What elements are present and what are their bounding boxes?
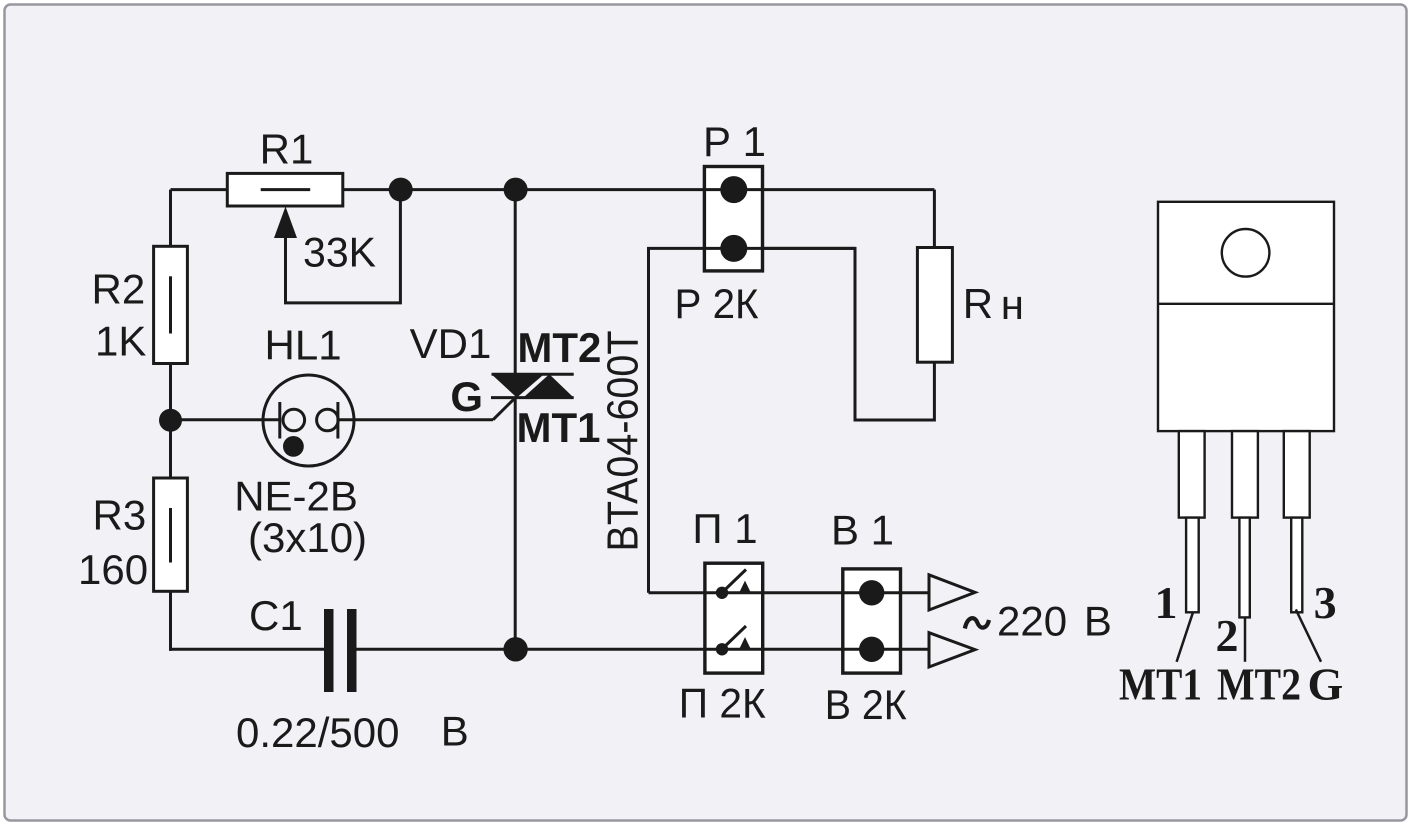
svg-text:1K: 1K <box>95 317 146 364</box>
wire P1 lower left <box>649 248 705 592</box>
svg-text:C1: C1 <box>249 592 303 639</box>
HL1 gas dot <box>283 436 304 457</box>
svg-text:R3: R3 <box>93 492 147 539</box>
svg-text:Р 2К: Р 2К <box>675 280 760 327</box>
svg-text:0.22/500: 0.22/500 <box>236 709 400 756</box>
svg-text:В: В <box>1084 598 1112 645</box>
connector P1 <box>704 167 762 271</box>
svg-text:MT1: MT1 <box>1119 659 1202 710</box>
svg-text:NE-2B: NE-2B <box>234 473 358 520</box>
svg-text:В: В <box>441 707 469 754</box>
wire HL1 rail <box>171 418 280 421</box>
wire R3 to bottom rail <box>169 591 172 651</box>
connector B1 <box>843 569 901 673</box>
wire B1 upper out <box>901 591 930 594</box>
load resistor Rn <box>917 248 952 363</box>
label ~ <box>965 618 989 628</box>
svg-text:G: G <box>1308 659 1344 710</box>
svg-text:MT2: MT2 <box>517 324 601 371</box>
svg-text:VD1: VD1 <box>410 320 492 367</box>
wire bottom rail to C1 <box>169 648 324 651</box>
svg-text:В 2К: В 2К <box>825 681 907 728</box>
TO-220 legs <box>1179 431 1310 617</box>
svg-text:1: 1 <box>1155 577 1178 628</box>
wire gate diagonal <box>493 399 514 420</box>
wire top rail R1 to P1 <box>343 188 763 191</box>
triac VD1 <box>491 374 574 397</box>
node junction dot D (triac/bottom rail) <box>503 637 527 661</box>
svg-text:MT1: MT1 <box>517 404 601 451</box>
svg-text:В 1: В 1 <box>831 507 894 554</box>
TO-220 callout lines <box>1177 609 1321 661</box>
wire triac vertical bottom <box>514 398 517 650</box>
svg-text:2: 2 <box>1216 610 1239 661</box>
neon lamp HL1 <box>263 375 354 466</box>
node junction dot C (R2/R3/HL1) <box>159 409 182 432</box>
svg-text:33K: 33K <box>303 229 376 276</box>
wiper arrow of R1 <box>274 207 297 239</box>
wire triac anode vertical top <box>514 190 517 375</box>
wire R2 to R3 <box>169 364 172 479</box>
arrow terminal upper <box>929 575 975 610</box>
resistor R2 <box>154 246 188 363</box>
wire HL1 to gate <box>338 418 493 421</box>
svg-text:HL1: HL1 <box>265 322 342 369</box>
wire wiper stem <box>286 190 401 303</box>
svg-text:BTA04-600T: BTA04-600T <box>599 331 648 552</box>
svg-text:R: R <box>963 280 993 327</box>
switch P1 (П1) <box>705 563 763 673</box>
svg-text:Р 1: Р 1 <box>703 118 766 165</box>
svg-text:R1: R1 <box>260 126 314 173</box>
svg-text:220: 220 <box>997 598 1067 645</box>
wire left vertical R1 to R2 <box>169 190 172 247</box>
svg-text:3: 3 <box>1314 577 1337 628</box>
wire top rail <box>171 188 228 191</box>
capacitor C1 <box>324 609 357 692</box>
svg-text:П 1: П 1 <box>692 505 757 552</box>
svg-text:MT2: MT2 <box>1217 659 1301 710</box>
TO-220 package body <box>1158 202 1334 431</box>
node junction dot B (triac/top rail) <box>504 178 528 202</box>
svg-text:160: 160 <box>78 546 148 593</box>
wire P1 lower crossing <box>704 247 855 250</box>
resistor R1 potentiometer <box>227 173 342 206</box>
wire bottom rail C1 to P1sw <box>357 648 843 651</box>
svg-text:н: н <box>1001 281 1024 328</box>
wire Rn loop <box>763 248 935 420</box>
node junction dot A (wiper/top rail) <box>389 178 413 202</box>
arrow terminal lower <box>929 633 975 667</box>
svg-text:(3x10): (3x10) <box>248 514 367 561</box>
svg-text:R2: R2 <box>92 266 146 313</box>
svg-text:П 2К: П 2К <box>679 680 767 727</box>
wire Rn top <box>933 190 936 248</box>
wire top rail P1 to Rn <box>763 188 935 191</box>
wire B1 lower out <box>843 648 929 651</box>
svg-text:G: G <box>450 373 483 420</box>
resistor R3 <box>154 478 188 591</box>
wire switch upper rail <box>649 591 843 594</box>
